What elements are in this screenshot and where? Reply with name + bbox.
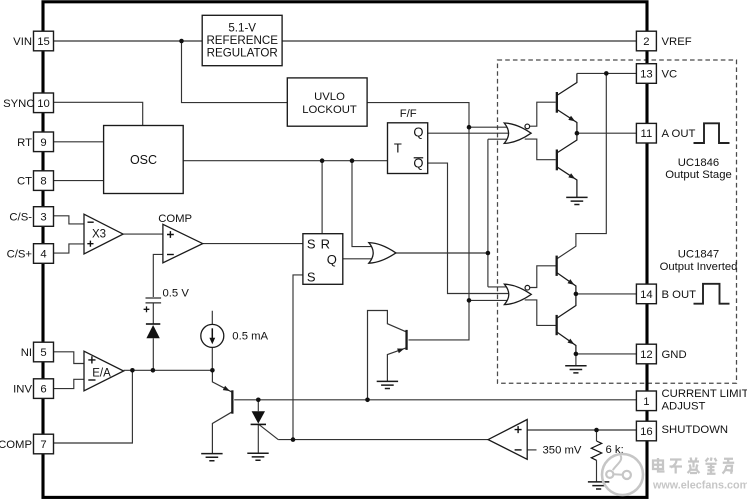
output stage dashed boundary box: [498, 60, 737, 383]
junction dots: [179, 39, 184, 44]
wire SYNC pin10 to OSC: [54, 102, 143, 125]
wire UVLO branch to NOR B bottom input: [469, 299, 508, 301]
wire C/S+ pin4 to X3 non-inverting input: [54, 244, 85, 253]
svg-text:Q: Q: [327, 252, 337, 267]
wire GND node to pin12: [576, 353, 637, 355]
wire Q3 emitter to ground: [387, 348, 406, 381]
pin 16 SHUTDOWN: [636, 421, 656, 441]
wire COMP inverting input to 0.5V battery: [153, 254, 163, 297]
svg-text:RT: RT: [17, 137, 32, 149]
wire current limit adjust line to pin1: [234, 399, 636, 401]
pin 4 C/S+: [34, 244, 54, 264]
wire latch Q to OR gate input: [343, 258, 375, 260]
wire Q7 emitter: [557, 332, 576, 354]
svg-text:COMP: COMP: [0, 439, 32, 451]
flip-flop U2 F/F: [388, 123, 428, 174]
svg-text:12: 12: [640, 349, 653, 361]
svg-text:VC: VC: [662, 69, 678, 81]
wire VIN pin15 to reference regulator: [54, 40, 203, 42]
transistor Q4 base bar (A-channel top NPN): [556, 92, 558, 113]
svg-text:OSC: OSC: [130, 153, 157, 167]
svg-text:Output Stage: Output Stage: [665, 169, 732, 181]
ground under Q2 collector: [201, 454, 222, 461]
wire battery to diode D1 to E/A output node: [152, 303, 154, 370]
svg-text:11: 11: [641, 128, 653, 140]
wire C/S- pin3 to X3 inverting input: [54, 216, 85, 224]
ground under Q5 emitter: [566, 197, 587, 204]
NOR gate A (top output): [504, 123, 531, 143]
wire UVLO output to NOR gates and Q3 base: [367, 103, 469, 340]
wire Q2 collector to ground: [212, 412, 232, 454]
svg-text:350 mV: 350 mV: [543, 445, 582, 457]
wire SHUTDOWN pin16 to comparator plus input: [527, 429, 636, 431]
wire shutdown comparator output line: [278, 439, 488, 441]
transistor Q7 base bar (B-channel bottom NPN): [556, 315, 558, 335]
svg-text:REGULATOR: REGULATOR: [207, 46, 278, 59]
svg-text:2: 2: [643, 36, 649, 48]
OR gate U5 (PWM): [369, 243, 396, 264]
current sense amplifier X3: [84, 214, 123, 254]
svg-text:R: R: [321, 237, 330, 252]
ground under resistor R1: [588, 482, 609, 489]
svg-text:5.1-V: 5.1-V: [228, 22, 256, 35]
pin 13 VC: [636, 64, 656, 84]
pin 8 CT: [34, 171, 54, 191]
svg-text:CURRENT LIMIT: CURRENT LIMIT: [662, 388, 747, 400]
wire NOR A output to Q5 base: [525, 139, 556, 160]
svg-text:4: 4: [40, 249, 46, 261]
pin 14 B OUT: [636, 284, 656, 304]
svg-text:INV: INV: [13, 384, 32, 396]
resistor R1 6k zigzag: [591, 441, 601, 460]
wire COMP comparator output to latch S input: [203, 243, 303, 245]
wire VC rail to Q6 collector: [557, 73, 607, 259]
wire VIN branch to UVLO input: [182, 41, 288, 103]
svg-text:COMP: COMP: [158, 213, 192, 225]
svg-text:LOCKOUT: LOCKOUT: [302, 104, 357, 116]
ground under Q3 emitter: [377, 381, 398, 388]
svg-text:A OUT: A OUT: [662, 128, 696, 140]
current source I1 0.5 mA: [201, 324, 224, 347]
svg-text:7: 7: [40, 439, 46, 451]
battery 0.5 V: [146, 298, 162, 303]
svg-text:UVLO: UVLO: [314, 91, 345, 103]
wire OSC branch to latch R input: [321, 161, 323, 234]
wire INV pin6 to E/A: [54, 379, 85, 388]
wire Q7 collector: [557, 294, 576, 319]
svg-text:GND: GND: [662, 349, 687, 361]
pin 2 VREF: [636, 31, 656, 51]
pin 9 RT: [34, 132, 54, 152]
pin 11 A OUT: [636, 123, 656, 143]
svg-text:E/A: E/A: [92, 367, 111, 379]
wire VC line to pin13: [577, 72, 637, 74]
wire Q2 emitter: [212, 370, 232, 392]
watermark CJK glyph approximations: [653, 458, 665, 472]
latch U3 S R Q S: [303, 234, 343, 285]
wire Q4 collector: [557, 73, 577, 95]
svg-text:CT: CT: [17, 176, 32, 188]
wire zener D2 leads: [257, 400, 259, 453]
svg-text:C/S+: C/S+: [7, 249, 33, 261]
wire OR output branch to both NOR gates: [488, 139, 509, 287]
wire RT pin9 to OSC: [54, 141, 104, 143]
shutdown comparator U4: [488, 420, 527, 460]
svg-text:3: 3: [40, 212, 46, 224]
ground under Q7 emitter: [565, 366, 586, 373]
svg-text:UC1846: UC1846: [678, 157, 719, 169]
svg-text:1: 1: [643, 396, 649, 408]
error amplifier E/A: [84, 351, 124, 391]
wire GND node to ground symbol: [575, 354, 577, 366]
wire Q4 emitter: [557, 109, 577, 133]
svg-text:5: 5: [40, 347, 46, 359]
wire A OUT node to pin11: [577, 132, 637, 134]
svg-text:9: 9: [40, 137, 46, 149]
wire resistor R1 leads: [596, 430, 598, 482]
wire OR gate output: [396, 252, 488, 254]
svg-text:C/S-: C/S-: [9, 212, 32, 224]
svg-text:15: 15: [37, 36, 50, 48]
wire F/F Qbar to NOR B input: [428, 163, 509, 293]
svg-text:S: S: [307, 237, 316, 252]
wire Q3 collector path: [368, 311, 407, 400]
svg-text:www.elecfans.com: www.elecfans.com: [652, 480, 747, 492]
wire E/A output node line: [124, 369, 213, 371]
svg-text:14: 14: [640, 289, 653, 301]
pin 1 CURRENT LIMIT ADJUST: [636, 391, 656, 411]
A OUT pulse waveform icon: [694, 123, 730, 143]
svg-text:X3: X3: [92, 228, 106, 240]
wire F/F Q to NOR A input: [428, 132, 509, 134]
NOR A bubble: [525, 124, 530, 129]
wire latch second S input to shutdown comparator output: [293, 275, 303, 440]
svg-text:NI: NI: [21, 347, 32, 359]
svg-text:UC1847: UC1847: [678, 249, 719, 261]
wire NOR B output to Q6 base: [530, 266, 556, 288]
block: UVLO lockout: [287, 78, 367, 126]
block: oscillator OSC: [104, 126, 184, 194]
svg-text:8: 8: [40, 176, 46, 188]
svg-text:16: 16: [640, 426, 653, 438]
pin 6 INV: [34, 379, 54, 399]
transistor Q6 base bar (B-channel top NPN): [556, 256, 558, 276]
ground under zener D2: [247, 453, 268, 460]
svg-text:0.5 V: 0.5 V: [163, 287, 190, 299]
wire Q5 collector: [557, 133, 577, 153]
pin 12 GND: [636, 344, 656, 364]
pin 5 NI: [34, 342, 54, 362]
svg-text:SYNC: SYNC: [3, 98, 34, 110]
svg-text:REFERENCE: REFERENCE: [206, 34, 278, 47]
wire COMP pin7 feedback to E/A output: [54, 370, 133, 443]
wire CT pin8 to OSC: [54, 180, 104, 182]
B OUT pulse waveform icon: [694, 284, 730, 304]
PWM comparator COMP: [163, 224, 203, 262]
wire OSC output to F/F T input: [183, 160, 387, 162]
wire comparator minus input stub: [527, 449, 536, 451]
wire UVLO branch to NOR A top input: [469, 126, 508, 128]
wire NI pin5 to E/A: [54, 352, 85, 364]
wire X3 output to COMP comparator: [123, 233, 163, 235]
svg-text:ADJUST: ADJUST: [662, 400, 706, 412]
svg-text:VIN: VIN: [13, 36, 32, 48]
wire 0.5mA current source leads: [211, 311, 213, 371]
svg-text:Output Inverted: Output Inverted: [660, 261, 738, 273]
svg-text:10: 10: [37, 98, 50, 110]
wire B OUT node to pin14: [576, 293, 637, 295]
svg-text:B OUT: B OUT: [662, 289, 697, 301]
svg-text:F/F: F/F: [400, 108, 417, 120]
watermark logo circle: [602, 454, 643, 495]
NOR gate B (bottom output): [504, 284, 531, 304]
transistor Q5 base bar (A-channel bottom NPN): [556, 150, 558, 171]
pin 15 VIN: [34, 31, 54, 51]
wire OSC branch to OR gate blanking input: [352, 161, 375, 247]
wire reference regulator to VREF pin2: [282, 40, 636, 42]
zener diode D2: [252, 411, 265, 423]
pin 7 COMP: [34, 434, 54, 454]
svg-text:0.5 mA: 0.5 mA: [232, 331, 268, 343]
wire Q5 emitter to ground: [557, 167, 577, 198]
wire zener to comparator output diagonal: [259, 425, 278, 440]
svg-text:S: S: [307, 269, 316, 284]
wire Q6 emitter: [557, 273, 576, 294]
svg-text:13: 13: [640, 69, 653, 81]
svg-text:Q: Q: [413, 125, 423, 140]
wire NOR A output to Q4 base: [530, 102, 556, 126]
diode D1: [146, 323, 160, 325]
pin 3 C/S-: [34, 207, 54, 227]
NOR B bubble: [525, 285, 530, 290]
svg-text:SHUTDOWN: SHUTDOWN: [662, 424, 729, 436]
block: 5.1-V reference regulator: [202, 15, 282, 65]
svg-text:T: T: [394, 141, 402, 156]
transistor Q2 base bar (clamp PNP): [231, 390, 233, 413]
wire NOR B output to Q7 base: [525, 300, 556, 326]
svg-text:6: 6: [40, 384, 46, 396]
pin 10 SYNC: [34, 93, 54, 113]
svg-text:VREF: VREF: [662, 36, 692, 48]
transistor Q3 base bar (current limit PNP): [405, 330, 407, 350]
